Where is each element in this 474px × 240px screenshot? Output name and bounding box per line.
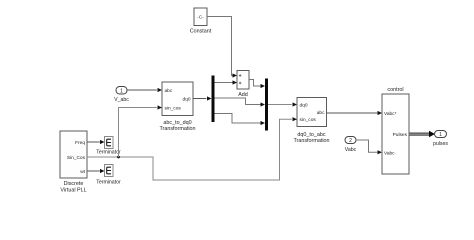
svg-text:Transformation: Transformation <box>159 126 195 132</box>
svg-text:Discrete: Discrete <box>64 181 84 187</box>
wire Demux out1 to Add in2 <box>215 80 238 84</box>
wire V_abc to abc input <box>127 88 162 92</box>
wire Constant to Add in1 <box>207 17 237 78</box>
wire Freq to Terminator <box>87 140 105 144</box>
wire Demux out2 to Mux in2 <box>215 98 266 107</box>
block U4 Discrete Virtual PLL <box>60 131 87 193</box>
svg-text:sin_cos: sin_cos <box>300 117 317 123</box>
svg-text:Pulses: Pulses <box>393 132 408 138</box>
wire abc output to control Vabc* <box>327 111 383 115</box>
svg-text:Add: Add <box>238 92 248 98</box>
adder U2 Add <box>237 71 249 98</box>
wire dq0 output to Demux <box>193 96 212 100</box>
svg-text:abc: abc <box>165 88 173 94</box>
output port 1 pulses <box>433 131 448 148</box>
wire wt to Terminator1 <box>87 169 105 173</box>
svg-text:1: 1 <box>439 132 442 138</box>
svg-text:sin_cos: sin_cos <box>165 105 182 111</box>
svg-text:-C-: -C- <box>197 15 204 20</box>
terminator T2 Terminator1 <box>96 165 121 186</box>
block U1 abc_to_dq0 Transformation <box>159 82 195 132</box>
input port 2 Vabc <box>345 137 357 153</box>
svg-text:Sin_Cos: Sin_Cos <box>67 155 86 161</box>
svg-text:Terminator: Terminator <box>96 180 121 186</box>
svg-text:Freq: Freq <box>75 140 85 146</box>
svg-text:Vabc: Vabc <box>345 147 357 153</box>
svg-text:dq0: dq0 <box>300 103 308 109</box>
svg-text:Virtual PLL: Virtual PLL <box>60 187 86 193</box>
svg-text:pulses: pulses <box>433 141 448 147</box>
wire Add output to Mux in1 <box>249 80 265 89</box>
svg-text:Vabc*: Vabc* <box>384 111 397 117</box>
svg-text:Transformation: Transformation <box>293 138 329 144</box>
constant C1 Constant <box>190 8 212 35</box>
wire Mux output to dq0 input <box>268 102 297 106</box>
svg-text:V_abc: V_abc <box>114 97 129 103</box>
terminator T1 Terminator <box>96 137 121 156</box>
wire Vabc to control Vabc <box>356 140 382 154</box>
input port 1 V_abc <box>114 87 129 104</box>
block U3 dq0_to_abc Transformation <box>293 98 329 145</box>
demux Demux <box>212 76 215 123</box>
svg-text:control: control <box>387 87 403 93</box>
svg-text:Terminator: Terminator <box>96 150 121 156</box>
wire Pulses wide signal to output <box>409 131 435 138</box>
mux Mux <box>265 79 268 131</box>
svg-text:wt: wt <box>80 169 85 175</box>
svg-text:Constant: Constant <box>190 29 212 35</box>
subsystem U5 control <box>382 87 409 174</box>
svg-text:Vabc: Vabc <box>384 151 395 157</box>
node junction Sin_Cos branch <box>117 156 120 159</box>
wire Demux out3 to Mux in3 <box>215 114 266 126</box>
svg-text:dq0: dq0 <box>182 97 190 103</box>
wire Sin_Cos branch to abc_to_dq0 sin_cos <box>119 105 163 157</box>
wire Sin_Cos net <box>87 117 297 180</box>
svg-text:1: 1 <box>120 88 123 94</box>
svg-text:2: 2 <box>349 138 352 144</box>
svg-text:abc: abc <box>317 110 325 116</box>
